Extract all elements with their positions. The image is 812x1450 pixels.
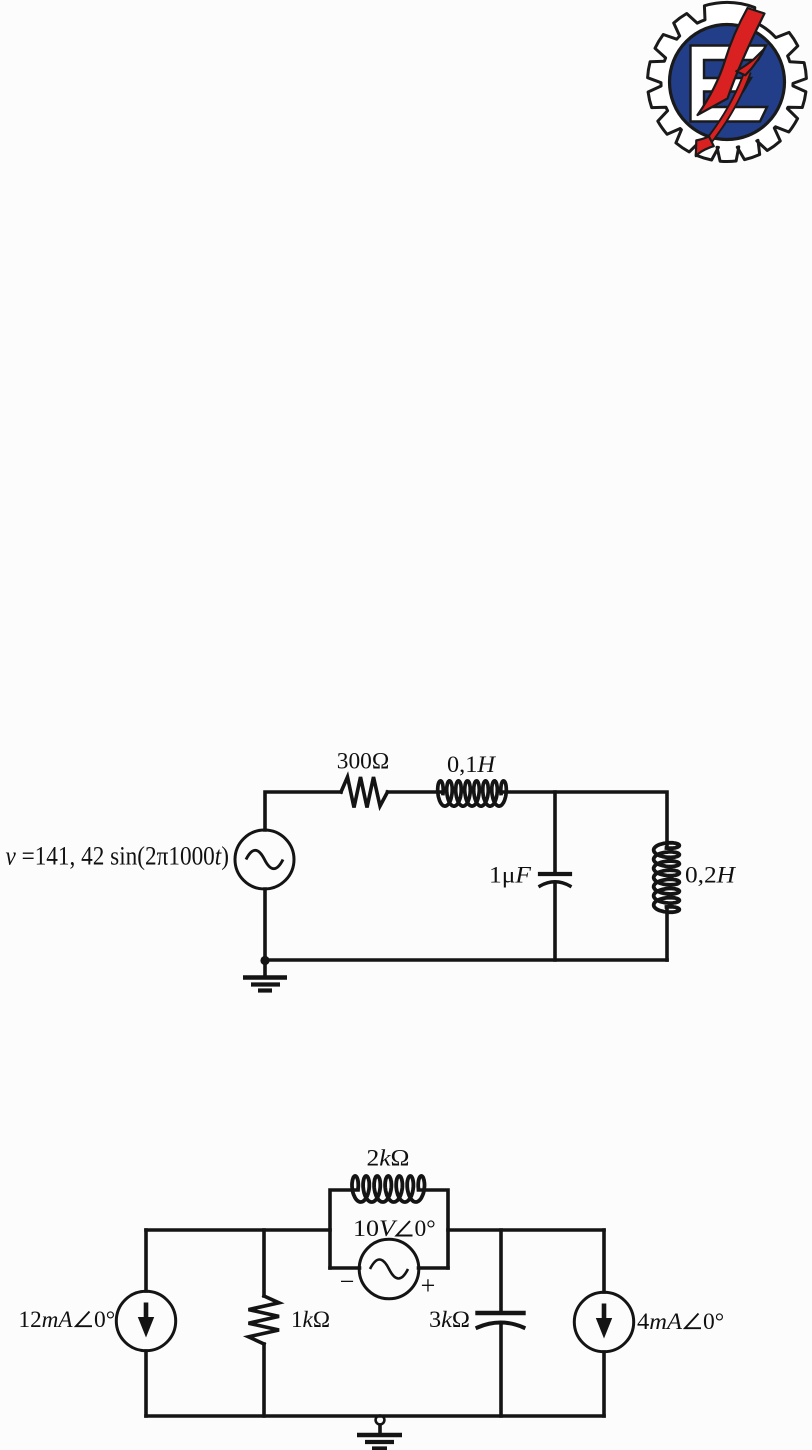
svg-text:300Ω: 300Ω [337, 749, 390, 775]
svg-text:0,1H: 0,1H [447, 752, 497, 778]
svg-text:−: − [340, 1267, 355, 1296]
svg-text:+: + [421, 1271, 436, 1300]
svg-text:0°: 0° [94, 1307, 115, 1333]
svg-text:3kΩ: 3kΩ [429, 1307, 470, 1333]
svg-text:2kΩ: 2kΩ [367, 1146, 410, 1172]
svg-text:v =141, 42 sin(2π1000t): v =141, 42 sin(2π1000t) [6, 841, 230, 871]
svg-text:0°: 0° [415, 1216, 436, 1242]
svg-text:0°: 0° [703, 1309, 724, 1335]
svg-text:4mA: 4mA [637, 1309, 683, 1335]
svg-text:1kΩ: 1kΩ [291, 1307, 330, 1333]
svg-text:0,2H: 0,2H [685, 863, 737, 889]
svg-text:1μF: 1μF [489, 863, 532, 889]
svg-text:10V: 10V [353, 1216, 398, 1242]
svg-text:12mA: 12mA [19, 1307, 74, 1333]
